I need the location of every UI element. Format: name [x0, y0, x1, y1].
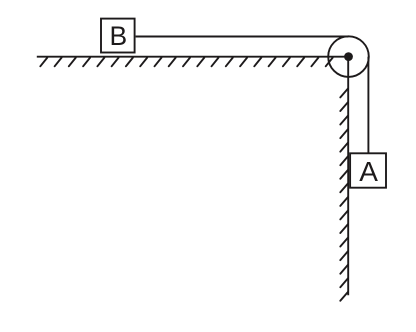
svg-text:B: B	[110, 21, 128, 51]
block B	[101, 19, 135, 53]
wall line	[347, 57, 349, 296]
rope from pulley to A	[367, 57, 369, 153]
svg-text:A: A	[359, 156, 378, 187]
block A	[350, 153, 386, 187]
wall hatching	[340, 89, 348, 301]
rope from B to pulley	[136, 36, 349, 38]
table surface line	[37, 56, 349, 58]
pulley axle dot	[344, 52, 353, 61]
pulley wheel	[328, 36, 369, 77]
table hatching	[40, 58, 332, 67]
